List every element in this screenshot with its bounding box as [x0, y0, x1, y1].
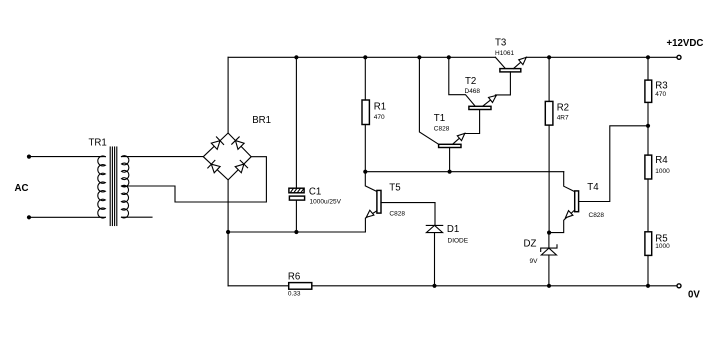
svg-text:D468: D468	[465, 88, 481, 95]
diode D1	[426, 203, 468, 286]
resistor R1	[362, 55, 386, 172]
svg-text:DIODE: DIODE	[448, 238, 469, 245]
svg-text:1000u/25V: 1000u/25V	[310, 198, 342, 205]
svg-text:T4: T4	[587, 182, 599, 193]
wire bottom rail	[228, 285, 679, 287]
resistor R5	[645, 232, 670, 286]
node	[646, 124, 650, 128]
node	[294, 55, 298, 59]
node	[447, 55, 451, 59]
svg-text:R3: R3	[655, 81, 667, 92]
svg-text:BR1: BR1	[252, 115, 271, 126]
wire top rail right section	[526, 56, 679, 58]
diode BR1 bottom-left	[208, 160, 220, 172]
svg-text:9V: 9V	[530, 258, 539, 265]
svg-text:470: 470	[655, 91, 666, 98]
resistor R3	[645, 55, 668, 126]
terminal AC top	[27, 155, 31, 159]
node	[547, 231, 551, 235]
terminal AC bottom	[27, 215, 31, 219]
wire	[122, 157, 267, 202]
node	[547, 55, 551, 59]
svg-text:R6: R6	[288, 272, 300, 283]
transistor T5	[365, 172, 435, 232]
svg-text:R1: R1	[374, 101, 386, 112]
wire top rail left section	[228, 56, 495, 58]
node	[294, 230, 298, 234]
svg-text:C828: C828	[389, 211, 405, 218]
wire	[122, 216, 153, 218]
terminal +12VDC	[677, 55, 681, 59]
node	[646, 284, 650, 288]
svg-text:T1: T1	[434, 113, 445, 124]
node	[363, 170, 367, 174]
svg-text:T3: T3	[495, 38, 506, 49]
node	[432, 284, 436, 288]
wire	[227, 57, 229, 133]
svg-text:1000: 1000	[655, 168, 670, 175]
svg-text:T5: T5	[389, 182, 400, 193]
terminal 0V	[677, 284, 681, 288]
transistor T2	[447, 55, 497, 133]
transistor T1	[417, 55, 465, 172]
svg-text:0.33: 0.33	[288, 291, 301, 298]
transistor T3	[495, 38, 526, 95]
svg-text:4R7: 4R7	[557, 115, 569, 122]
svg-text:470: 470	[374, 114, 385, 121]
svg-text:R4: R4	[655, 155, 668, 166]
svg-text:T2: T2	[465, 76, 476, 87]
svg-text:1000: 1000	[655, 243, 670, 250]
svg-text:0V: 0V	[688, 290, 700, 301]
svg-text:H1061: H1061	[495, 50, 515, 57]
node	[547, 284, 551, 288]
resistor R6	[288, 272, 312, 298]
node	[448, 170, 452, 174]
node	[363, 55, 367, 59]
wire	[29, 216, 102, 218]
svg-text:D1: D1	[447, 224, 459, 235]
node	[417, 55, 421, 59]
transistor T4	[549, 126, 648, 233]
node	[226, 230, 230, 234]
bridge rectifier BR1	[203, 115, 271, 180]
wire	[227, 180, 229, 232]
svg-text:C828: C828	[434, 125, 450, 132]
zener DZ	[524, 233, 558, 286]
node	[646, 55, 650, 59]
resistor R2	[545, 55, 569, 232]
diode BR1 top-left	[211, 137, 223, 149]
diode BR1 top-right	[232, 137, 244, 149]
resistor R4	[645, 126, 670, 232]
wire mid rail	[365, 171, 563, 173]
svg-text:DZ: DZ	[524, 238, 537, 249]
wire	[227, 232, 229, 286]
wire	[122, 156, 204, 158]
svg-text:C1: C1	[309, 187, 321, 198]
svg-text:R2: R2	[557, 102, 569, 113]
wire mid-low rail	[228, 231, 365, 233]
svg-text:C828: C828	[589, 212, 605, 219]
diode BR1 bottom-right	[235, 160, 247, 172]
svg-text:AC: AC	[15, 183, 29, 194]
capacitor C1	[289, 55, 342, 232]
wire	[29, 156, 102, 158]
svg-text:+12VDC: +12VDC	[667, 38, 704, 49]
transformer TR1	[89, 137, 129, 225]
svg-text:TR1: TR1	[89, 137, 107, 148]
